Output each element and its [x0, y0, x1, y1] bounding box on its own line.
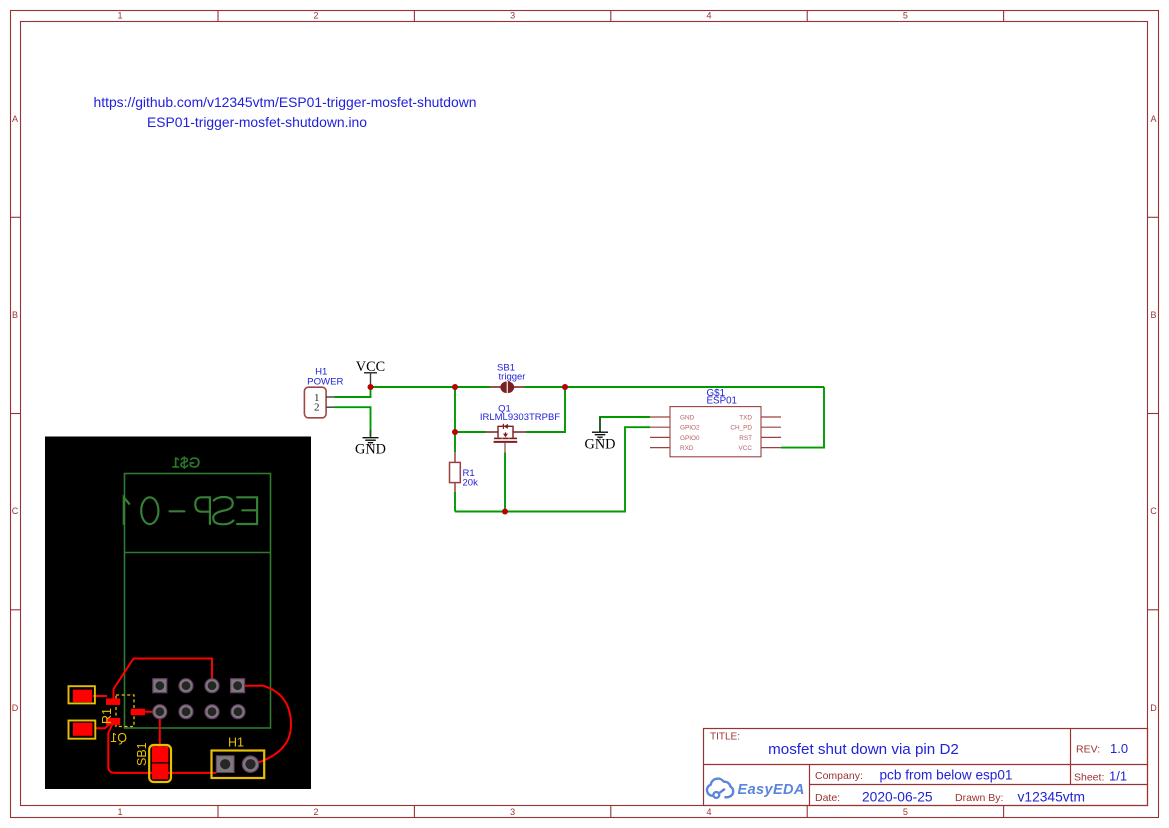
- wire gate node down through R1 to bottom rail: [454, 432, 456, 452]
- svg-text:1.0: 1.0: [1110, 741, 1128, 756]
- wire Q1 bottom terminal to bottom rail: [504, 453, 506, 512]
- svg-text:ESP01: ESP01: [707, 396, 738, 407]
- svg-text:2: 2: [314, 402, 320, 414]
- svg-text:1: 1: [117, 11, 122, 21]
- pcb trace: Q1 pad to row pad: [143, 711, 160, 713]
- svg-text:R1: R1: [100, 708, 114, 724]
- svg-text:20k: 20k: [463, 478, 479, 489]
- pcb silk text ESP-01 (mirrored): [124, 497, 257, 524]
- svg-text:GPIO0: GPIO0: [680, 435, 700, 442]
- svg-text:trigger: trigger: [499, 372, 526, 383]
- svg-text:IRLML9303TRPBF: IRLML9303TRPBF: [480, 412, 560, 423]
- resistor R1 20k: [450, 452, 479, 493]
- svg-text:REV:: REV:: [1076, 744, 1100, 756]
- svg-text:Drawn By:: Drawn By:: [955, 792, 1003, 804]
- junction right of SB1: [562, 384, 568, 390]
- svg-text:4: 4: [706, 11, 711, 21]
- pcb header H1: [212, 736, 265, 779]
- svg-text:GND: GND: [355, 442, 386, 458]
- svg-text:TXD: TXD: [739, 414, 752, 421]
- pcb header pads 2x4: [153, 679, 245, 719]
- svg-text:A: A: [1150, 114, 1156, 124]
- svg-text:3: 3: [510, 11, 515, 21]
- PCB preview image (bottom copper view): [45, 437, 311, 790]
- svg-text:D: D: [12, 703, 19, 713]
- svg-text:pcb from below esp01: pcb from below esp01: [880, 768, 1013, 783]
- pcb trace: SB1 column and bottom run: [159, 712, 161, 748]
- pcb trace: R1 to header pad3 loop: [114, 659, 213, 701]
- wire ESP01 GND pin to ground: [600, 417, 650, 432]
- wire main rail VCC to ESP01 side: [371, 386, 825, 388]
- svg-text:RST: RST: [739, 435, 752, 442]
- svg-text:A: A: [12, 114, 18, 124]
- pushbutton SB1: [490, 363, 525, 394]
- svg-text:GPIO2: GPIO2: [680, 425, 700, 432]
- transistor Q1 IRLML9303TRPBF: [486, 424, 526, 453]
- svg-text:5: 5: [903, 11, 908, 21]
- svg-text:5: 5: [903, 807, 908, 817]
- svg-text:EasyEDA: EasyEDA: [738, 782, 805, 798]
- svg-text:H1: H1: [228, 736, 244, 750]
- ground GND (right, ESP01 GND pin): [592, 417, 608, 439]
- svg-text:mosfet shut down via pin D2: mosfet shut down via pin D2: [768, 741, 959, 758]
- svg-text:ESP01-trigger-mosfet-shutdown.: ESP01-trigger-mosfet-shutdown.ino: [147, 114, 367, 130]
- svg-text:Company:: Company:: [815, 770, 863, 782]
- junction at VCC node: [368, 384, 374, 390]
- junction at gate column top: [452, 384, 458, 390]
- pcb silk text G$1 (mirrored): [172, 455, 200, 472]
- svg-text:2: 2: [313, 11, 318, 21]
- pcb trace: big pads to R1 pads: [93, 695, 107, 697]
- svg-text:2020-06-25: 2020-06-25: [862, 789, 933, 804]
- pcb trace: left loop from R1 bottom to SB1: [108, 722, 160, 773]
- svg-text:v12345vtm: v12345vtm: [1018, 789, 1086, 804]
- svg-text:Sheet:: Sheet:: [1074, 772, 1104, 784]
- svg-text:3: 3: [510, 807, 515, 817]
- pcb pushbutton SB1: [135, 742, 171, 782]
- wire H1 pin1 to VCC node: [335, 387, 371, 397]
- wire node to gate rail: [455, 387, 486, 432]
- svg-text:GND: GND: [680, 414, 695, 421]
- svg-text:SB1: SB1: [135, 742, 149, 766]
- svg-text:CH_PD: CH_PD: [730, 425, 752, 432]
- pcb background: [45, 437, 311, 790]
- pcb pad: power pad top: [69, 686, 95, 703]
- svg-text:C: C: [12, 506, 19, 516]
- svg-text:POWER: POWER: [307, 377, 343, 388]
- svg-text:1: 1: [117, 807, 122, 817]
- svg-text:Date:: Date:: [815, 792, 840, 804]
- wire H1 pin2 to GND: [335, 407, 371, 436]
- pcb trace: pad4 arc to H1 right pad: [238, 686, 291, 765]
- junction at gate node: [452, 429, 458, 435]
- wire VCC rail down to ESP01 VCC pin: [781, 387, 824, 448]
- svg-text:VCC: VCC: [739, 445, 753, 452]
- svg-text:https://github.com/v12345vtm/E: https://github.com/v12345vtm/ESP01-trigg…: [94, 94, 477, 110]
- title block: [704, 729, 1148, 806]
- wire Q1 right terminal up to rail: [526, 387, 565, 432]
- svg-text:B: B: [1150, 310, 1156, 320]
- connector H1: [304, 366, 343, 418]
- wire bottom rail to ESP01 GPIO2: [455, 427, 650, 511]
- ground GND (left, H1 pin2): [363, 430, 379, 445]
- pcb pad: power pad bottom: [69, 721, 96, 739]
- svg-text:B: B: [12, 310, 18, 320]
- svg-text:C: C: [1150, 506, 1157, 516]
- note: github link text: [94, 94, 477, 130]
- junction at bottom rail: [502, 509, 508, 515]
- pcb transistor Q1 pad: [131, 709, 145, 716]
- svg-text:RXD: RXD: [680, 445, 694, 452]
- svg-text:G$1: G$1: [172, 455, 200, 472]
- svg-text:GND: GND: [585, 437, 616, 453]
- svg-text:2: 2: [313, 807, 318, 817]
- module G$1 ESP01: [650, 388, 781, 457]
- pcb module outline G$1: [125, 474, 271, 729]
- svg-text:4: 4: [706, 807, 711, 817]
- svg-text:D: D: [1150, 703, 1157, 713]
- pcb resistor R1 pads and courtyard: [106, 695, 134, 727]
- svg-text:1/1: 1/1: [1109, 769, 1127, 784]
- EasyEDA logo: [707, 779, 805, 798]
- svg-text:Q1: Q1: [110, 731, 127, 745]
- svg-text:TITLE:: TITLE:: [710, 732, 740, 743]
- power flag VCC: [356, 359, 385, 387]
